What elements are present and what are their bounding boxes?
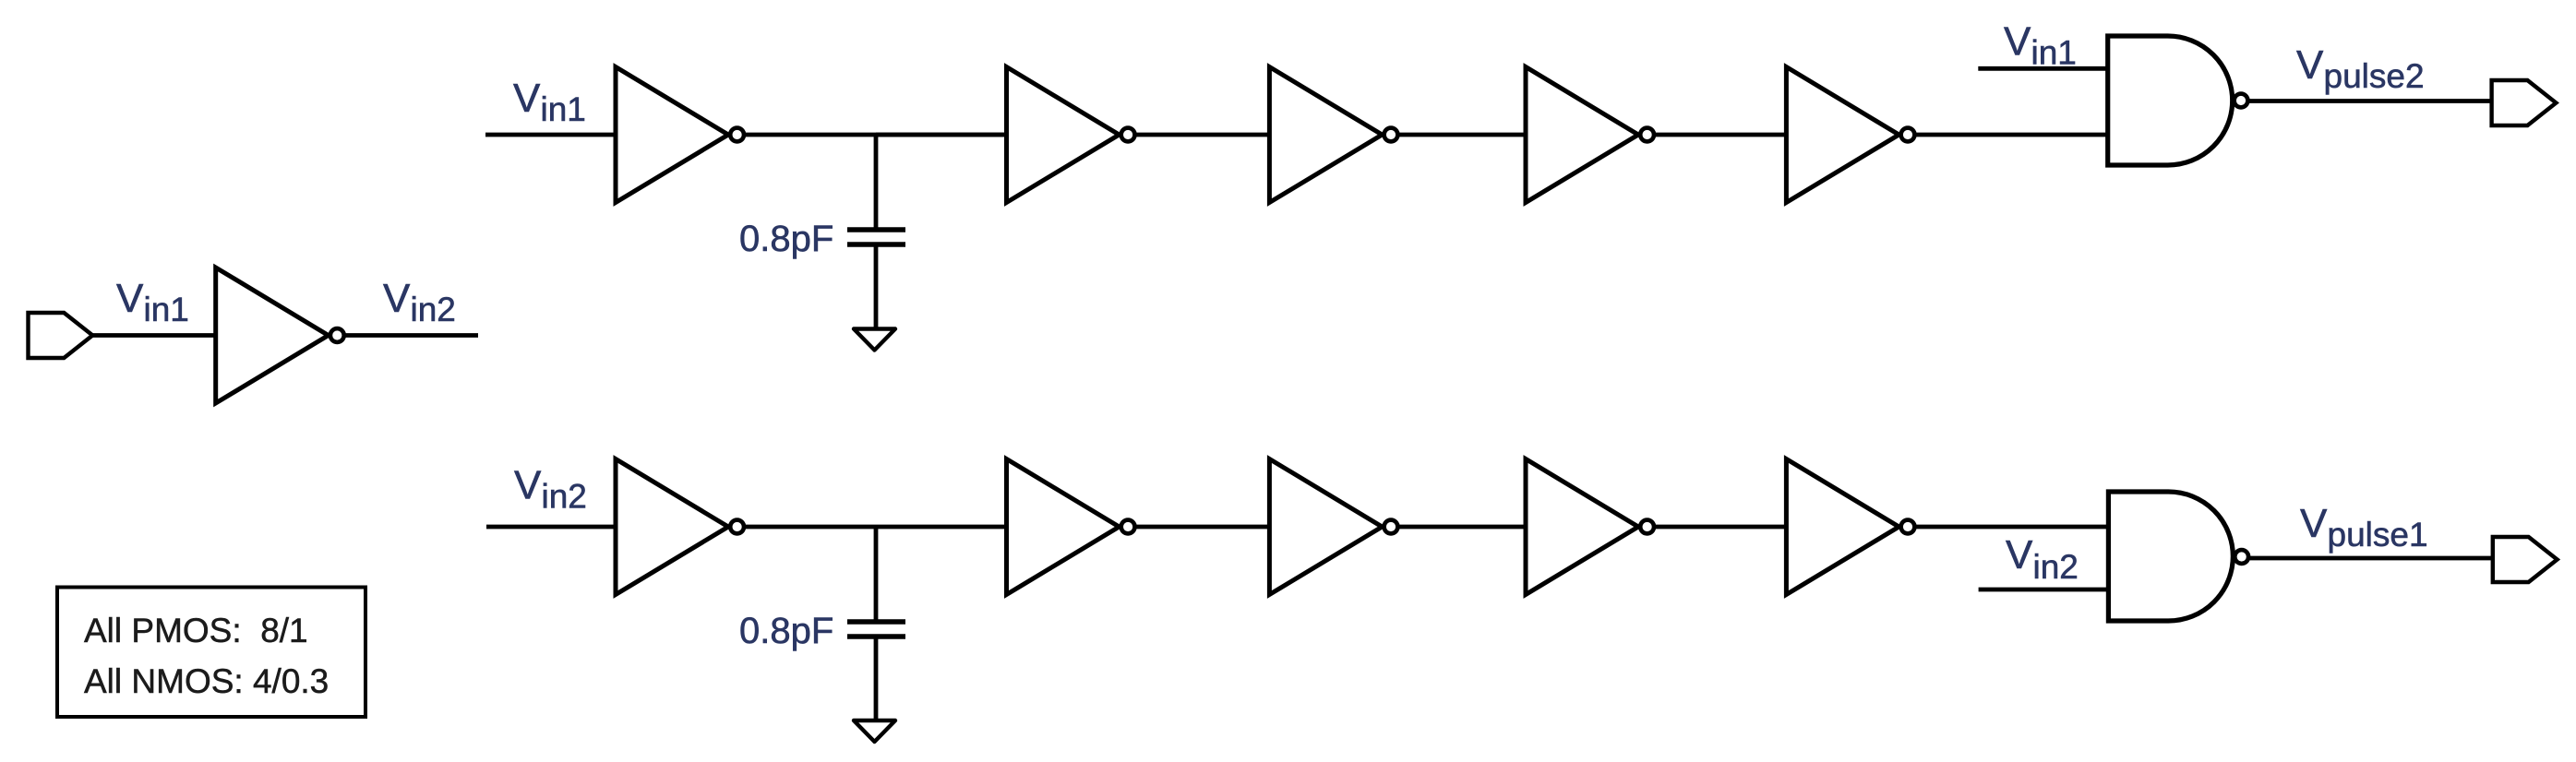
node B junction stub down to capacitor [874,527,879,621]
nand G2 output bubble [2235,550,2248,564]
svg-text:V: V [513,76,541,121]
output port Vpulse1 [2493,537,2558,582]
wire U6 output to node B [746,525,1007,530]
svg-text:in2: in2 [542,478,587,516]
svg-text:All NMOS: 4/0.3: All NMOS: 4/0.3 [84,662,329,700]
output port Vpulse2 [2492,80,2557,125]
svg-text:V: V [514,463,542,508]
svg-text:V: V [2006,532,2033,577]
inverter U7 [1007,459,1135,595]
node label Vin1 (NAND G1 upper input) [2004,19,2077,72]
wire Vin1 input (top row) [485,133,617,137]
capacitor C2 0.8pF [847,622,905,637]
wire U1 output to node A [746,133,1007,137]
nand gate G1 [2108,36,2233,165]
wire input port to inverter U0 [92,333,217,338]
wire G1 output to port Vpulse2 [2249,99,2493,103]
input port Vin1 [29,313,93,358]
inverter U8 [1269,459,1397,595]
inverter U9 [1526,459,1654,595]
svg-text:V: V [2300,501,2328,546]
svg-text:in2: in2 [2033,548,2079,586]
nand G1 output bubble [2235,94,2248,108]
wire U10 to NAND G2 upper input [1916,525,2108,530]
svg-text:in1: in1 [144,291,189,328]
wire U5 to NAND G1 lower input [1916,133,2108,137]
wire Vin1 to NAND G1 upper input [1978,66,2108,71]
wire U2 to U3 [1136,133,1270,137]
svg-text:All PMOS: 8/1: All PMOS: 8/1 [84,612,308,649]
inverter U6 [616,459,744,595]
inverter U4 [1526,67,1654,203]
capacitor C1 0.8pF [847,230,905,244]
node A junction stub down to capacitor [874,135,879,229]
wire capacitor C2 to ground [874,639,879,722]
inverter U2 [1007,67,1135,203]
wire U8 to U9 [1399,525,1527,530]
node label Vin2 (middle row) [383,276,456,328]
svg-text:V: V [2296,42,2324,88]
svg-text:V: V [116,276,144,321]
ground (bottom row) [854,720,895,742]
inverter U1 [616,67,744,203]
inverter U10 [1786,459,1914,595]
svg-text:0.8pF: 0.8pF [739,611,833,651]
wire Vin2 input (bottom row) [486,525,617,530]
svg-text:0.8pF: 0.8pF [739,219,833,259]
wire U0 output Vin2 [346,333,479,338]
annotation box [57,588,365,718]
node label Vin2 (NAND G2 lower input) [2006,532,2079,586]
svg-text:pulse1: pulse1 [2328,516,2428,554]
wire G2 output to port Vpulse1 [2249,556,2493,561]
wire U7 to U8 [1136,525,1270,530]
wire U9 to U10 [1656,525,1787,530]
wire node A to U2 [876,133,1007,137]
node label Vin1 (top row input) [513,76,586,128]
inverter U3 [1269,67,1397,203]
wire U3 to U4 [1399,133,1527,137]
svg-text:in1: in1 [541,90,586,128]
svg-text:V: V [2004,19,2031,65]
node label Vin1 (middle row) [116,276,189,328]
nand gate G2 [2108,492,2233,621]
node label Vin2 (bottom row input) [514,463,587,516]
node label Vpulse1 [2300,501,2428,554]
ground (top row) [854,329,895,351]
wire capacitor C1 to ground [874,247,879,330]
wire U4 to U5 [1656,133,1787,137]
svg-text:in2: in2 [411,291,456,328]
inverter U0 [216,268,344,403]
svg-text:V: V [383,276,411,321]
node label Vpulse2 [2296,42,2425,95]
wire Vin2 to NAND G2 lower input [1979,588,2109,592]
inverter U5 [1786,67,1914,203]
svg-text:in1: in1 [2031,34,2077,72]
svg-text:pulse2: pulse2 [2324,57,2425,95]
